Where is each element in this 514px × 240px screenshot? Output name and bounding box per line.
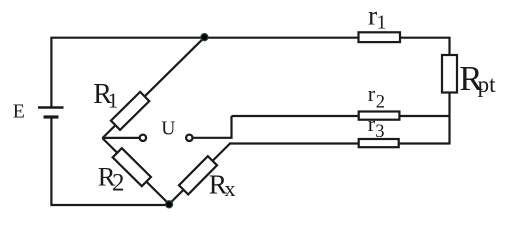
svg-text:pt: pt — [478, 72, 497, 97]
svg-text:U: U — [161, 119, 175, 140]
svg-text:x: x — [225, 176, 236, 201]
svg-text:r: r — [368, 81, 376, 106]
svg-text:3: 3 — [375, 122, 384, 142]
svg-text:E: E — [13, 100, 25, 122]
svg-text:1: 1 — [377, 12, 387, 33]
svg-text:1: 1 — [108, 88, 119, 112]
svg-text:2: 2 — [112, 170, 125, 197]
svg-text:2: 2 — [376, 92, 385, 112]
